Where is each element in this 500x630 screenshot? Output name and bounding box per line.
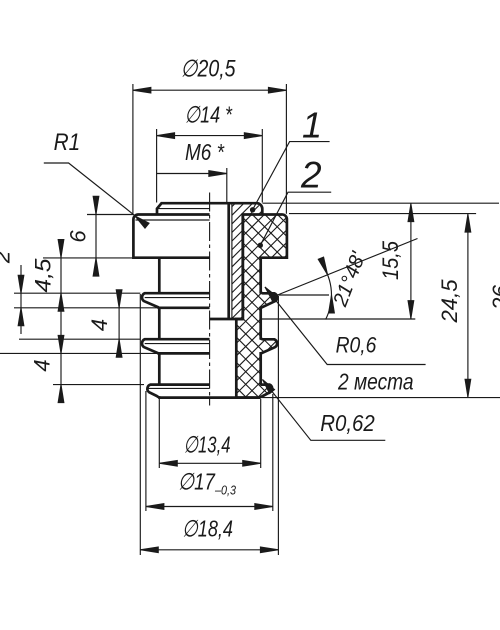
boss top / insert head outline: [157, 203, 262, 214]
angle 21°48 leg sloped: [278, 239, 418, 296]
thread major line: [231, 203, 233, 318]
dimension line 24.5: [467, 214, 469, 397]
extension line barb1 base left: [14, 307, 158, 309]
extension line d20.5 left: [132, 84, 134, 215]
flange chamfer line: [136, 219, 210, 221]
angle arc arrow upper: [318, 257, 327, 275]
leader dot balloon 1: [250, 207, 255, 212]
extension line d20.5 right: [285, 84, 287, 214]
svg-text:R1: R1: [54, 129, 81, 156]
extension line d17 left: [145, 391, 147, 511]
boss chamfer line: [157, 208, 209, 210]
svg-text:2: 2: [300, 155, 322, 196]
extension line flange top: [289, 213, 476, 215]
extension line insert bottom: [262, 318, 416, 320]
svg-text:∅14 *: ∅14 *: [185, 102, 233, 128]
extension line flange top left: [87, 214, 133, 216]
svg-text:4: 4: [87, 319, 112, 331]
barb ring (view): [142, 293, 210, 307]
centerline: [209, 193, 211, 406]
svg-text:6: 6: [66, 230, 91, 243]
bottom face: [158, 396, 261, 399]
svg-text:4: 4: [30, 359, 55, 371]
extension line barb3 top left: [53, 384, 144, 386]
svg-text:24,5: 24,5: [437, 279, 462, 323]
svg-text:R0,62: R0,62: [320, 410, 375, 436]
dimension line d13.4: [159, 462, 260, 464]
extension line d13.4 right: [260, 399, 262, 468]
dimension line 2: [20, 265, 22, 334]
extension line d14 left: [156, 129, 158, 203]
leader R1: [44, 163, 135, 215]
dimension line d14: [157, 135, 263, 137]
extension line d18.4 left: [139, 294, 141, 555]
leader dot balloon 2: [258, 243, 263, 248]
extension line d14 right: [261, 129, 263, 203]
svg-text:4,5: 4,5: [31, 258, 56, 293]
bottom barb ring (view): [147, 385, 209, 398]
leader balloon 1: [253, 142, 330, 210]
flange top (left view): [133, 214, 209, 257]
extension line d13.4 left: [158, 399, 160, 468]
insert bottom face: [210, 318, 243, 321]
dimension line d20.5: [133, 89, 287, 91]
dimension line 4,5 / 4: [60, 241, 62, 401]
barb crest thin lines: [145, 297, 210, 299]
svg-text:∅17: ∅17: [178, 469, 216, 495]
leader balloon 2: [260, 192, 331, 245]
svg-text:∅13,4: ∅13,4: [184, 432, 231, 458]
dimension line M6: [157, 173, 227, 175]
extension line d17 right: [272, 394, 274, 511]
svg-text:2 места: 2 места: [337, 369, 413, 395]
extension line flange bottom left: [43, 257, 133, 259]
svg-text:15,5: 15,5: [378, 241, 403, 280]
svg-text:M6 *: M6 *: [185, 139, 225, 165]
extension line d18.4 right: [277, 296, 279, 555]
leader R0,62: [263, 380, 386, 441]
extension line barb2 base left: [0, 352, 158, 354]
extension line barb2 top left: [19, 338, 140, 340]
dimension line 4 (upper): [118, 294, 120, 353]
angle arc arrow lower: [329, 295, 335, 313]
angle 21°48 leg horizontal: [278, 294, 330, 296]
extension line barb1 top left: [14, 292, 140, 294]
svg-text:∅20,5: ∅20,5: [181, 56, 237, 83]
barb ring (view): [142, 339, 210, 353]
angle arc: [322, 264, 332, 320]
svg-text:–0,3: –0,3: [214, 483, 236, 498]
svg-text:R0,6: R0,6: [336, 333, 377, 358]
svg-text:2: 2: [0, 251, 15, 264]
extension line M6: [226, 168, 228, 202]
part 2 body outline (section): [236, 214, 287, 397]
insert/body interface: [241, 215, 244, 320]
M6 bore line: [227, 203, 230, 319]
dimension line 6: [95, 198, 97, 275]
svg-text:1: 1: [302, 105, 322, 146]
extension line boss top: [263, 202, 500, 204]
svg-text:26: 26: [488, 285, 500, 312]
extension line bottom right: [261, 397, 500, 399]
svg-text:∅18,4: ∅18,4: [182, 516, 233, 542]
body left edge: [158, 258, 161, 294]
dimension line 15.5: [410, 204, 412, 319]
dimension line d17: [146, 506, 273, 508]
leader R0,6: [265, 287, 426, 365]
dimension line d18.4: [140, 549, 278, 551]
